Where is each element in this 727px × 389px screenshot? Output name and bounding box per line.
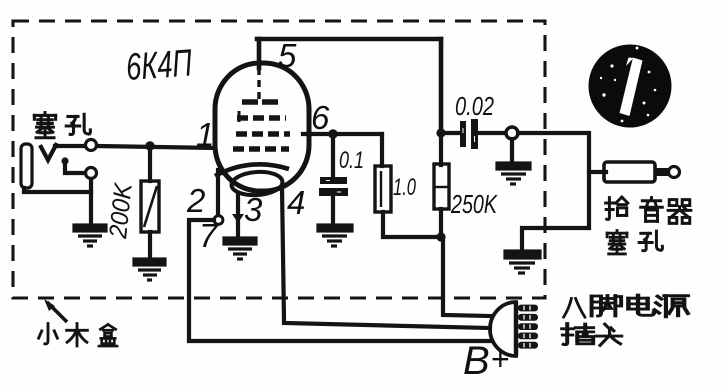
svg-text:250K: 250K [450,189,498,219]
wire: 1.0 bottom lead to junction [383,212,441,237]
label char 盒 [99,324,117,346]
wire: node to pickup jack [518,133,589,252]
plug pins [518,305,538,349]
svg-text:6: 6 [311,99,330,136]
svg-text:1.0: 1.0 [393,174,416,201]
output node circle [506,127,518,139]
junction at B+ node [436,232,445,241]
wire: jack sleeve bottom [24,188,91,192]
figure badge circle 1 [589,45,672,128]
junction node at 200K top [145,141,155,151]
label char 脚 [592,296,622,317]
wire: 0.1 bottom lead [331,196,335,226]
8-pin power plug body [490,302,516,356]
junction at 0.02 tap [436,128,445,137]
junction at 0.1 branch [328,129,338,139]
label char 小 [39,324,58,344]
resistor 250K body [434,164,449,209]
label char 塞 [34,113,55,138]
svg-text:3: 3 [244,191,263,228]
tube grid row 4 (control grid) [233,146,289,152]
wire: 0.02 left lead [443,131,460,135]
wire: pin3 cathode lead [236,193,240,238]
wire: pin4 lead down and right to plug [282,187,490,328]
wire: lower terminal to ground [89,179,93,226]
jack lower terminal circle [86,168,97,179]
tube 6К4П envelope [215,63,309,191]
label char 电 [628,295,654,315]
ground (output node) [497,163,530,184]
svg-text:B: B [463,339,490,383]
svg-text:6К4П: 6К4П [125,42,194,89]
svg-text:5: 5 [278,37,297,74]
resistor 200K body [141,181,159,232]
label char 孔 [66,114,90,134]
ground (200K) [134,259,165,280]
wire: node to ground [510,139,514,164]
capacitor 0.02 plates [460,121,466,147]
wire: 0.02 right lead [478,131,506,135]
label char 塞 [607,231,627,254]
svg-text:200K: 200K [104,181,138,241]
label char 木 [67,324,88,346]
tube grid row 2 [237,115,286,121]
dashed enclosure box (small wooden box) [13,21,545,298]
label char 孔 [639,231,662,251]
wire: grid input from jack to pin 1 [97,146,215,148]
svg-text:4: 4 [287,184,305,221]
label char 音 [641,198,663,222]
svg-text:0.02: 0.02 [455,91,494,121]
tube anode row [242,99,281,105]
pin2 terminal circle [214,216,223,225]
jack upper terminal circle [86,140,97,151]
wire: 250K top lead [439,133,443,165]
capacitor 0.1 plates [320,177,347,184]
tube grid row 3 [236,131,290,137]
leader line to box label [47,302,67,322]
jack tip spring contact [41,145,56,160]
jack contact dot [61,157,68,164]
resistor 1.0 body [375,166,391,212]
wire: pin 6 plate lead [303,132,382,136]
wire: 1.0 resistor top lead [380,134,384,166]
pickup phone plug barrel [604,162,655,182]
svg-text:2: 2 [186,182,205,219]
tube base ellipse [231,170,283,197]
label char 拾 [606,197,628,219]
label char 器 [668,200,691,224]
label char 八 [564,298,585,317]
wire: jack dot to lower terminal [65,161,85,173]
junction blob on pin3 [232,214,244,223]
wire: 250K bottom lead [439,209,443,237]
wire: top horizontal run to B+ column [257,37,441,42]
pickup plug neck [655,168,668,176]
ground (jack) [74,225,106,246]
svg-text:+: + [491,341,510,377]
wire: 0.1 top lead [331,134,335,177]
ground (cathode) [224,238,256,259]
wire: tap to pickup plug [589,170,606,174]
label char 源 [655,296,688,317]
wire: B+ drop to plug [443,237,490,316]
resistor 200K lead bottom [148,232,152,260]
label char 头 [596,324,621,345]
input jack barrel [21,144,32,188]
tube cathode arc [215,164,289,176]
tube internal top lead (dashed) [257,68,260,100]
pickup plug tip [669,167,680,178]
wire: B+ column upper segment [439,39,444,133]
ground (pickup sleeve) [505,251,540,273]
resistor 200K lead top [148,147,152,181]
wire: spring to upper terminal [55,144,86,148]
wire: heater run to plug (bottom) [189,220,491,341]
wire: pin5 top lead [257,39,262,68]
wire: pin2 lead down [216,170,220,215]
svg-text:0.1: 0.1 [339,147,364,174]
label char 插 [562,324,593,345]
ground (0.1) [318,225,352,246]
